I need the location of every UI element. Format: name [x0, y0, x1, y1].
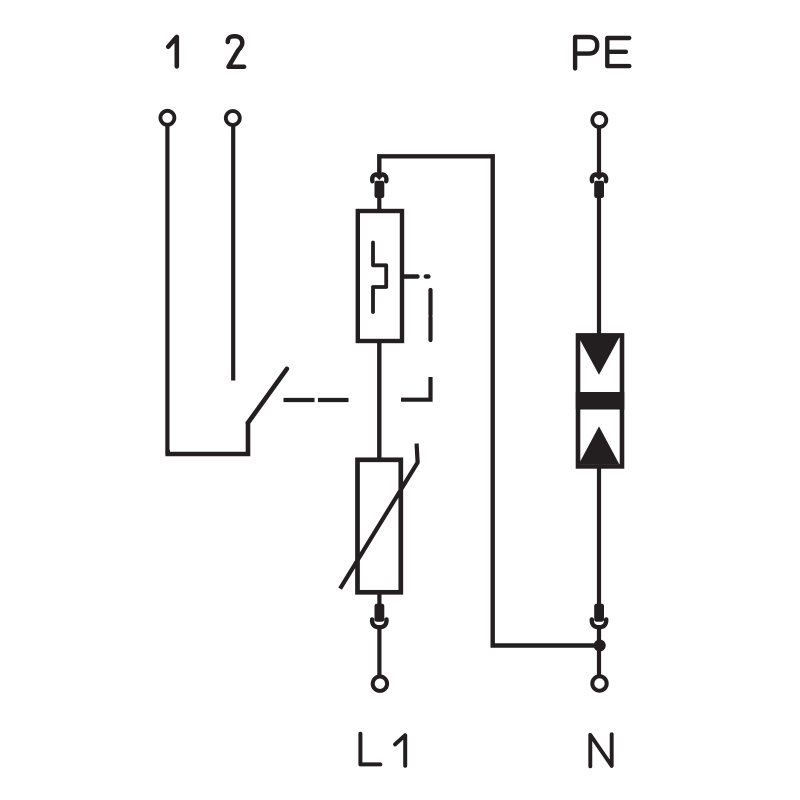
varistor	[358, 460, 401, 593]
wire socket to junction	[597, 628, 601, 676]
plug connector socket (top of SPD module)	[372, 174, 386, 181]
wire varistor to bottom pin	[377, 592, 381, 606]
wire socket to terminal L1	[377, 628, 381, 676]
mechanical linkage dash-dot horizontal from switch	[284, 398, 349, 402]
switch blade	[248, 369, 287, 423]
plug connector pin (top of PE module)	[594, 181, 604, 198]
thermal disconnect device	[358, 211, 402, 341]
terminal 2	[226, 111, 240, 125]
wire top into socket	[377, 170, 381, 176]
terminal PE	[592, 113, 606, 127]
label terminal 1	[168, 37, 177, 67]
gas discharge tube middle bar	[576, 392, 625, 410]
label PE	[575, 37, 597, 68]
wire terminal 2 down	[231, 127, 235, 381]
terminal 1	[160, 111, 174, 125]
mechanical linkage dash-dot vertical	[428, 290, 432, 340]
plug connector pin (bottom of PE module)	[594, 604, 604, 622]
wire top into PE socket	[597, 170, 601, 176]
wire pin to thermal disconnect	[377, 196, 381, 212]
terminal L1	[373, 677, 387, 691]
wire loop top (thermal disconnect to right bus)	[379, 156, 597, 645]
gas discharge tube top triangle	[579, 337, 620, 374]
label N	[590, 734, 611, 766]
mechanical linkage dash-dot from thermal disconnect	[404, 274, 429, 278]
label terminal 2	[228, 36, 244, 67]
junction node	[594, 640, 606, 652]
plug connector pin (bottom of SPD module)	[375, 604, 385, 622]
plug connector socket (top of PE module)	[592, 174, 606, 181]
wire switch bottom horizontal	[165, 422, 248, 455]
plug connector pin (top of SPD module)	[375, 181, 385, 198]
wire gas discharge tube to bottom pin	[597, 467, 601, 606]
gas discharge tube bottom triangle	[579, 426, 620, 464]
gas discharge tube	[578, 335, 622, 466]
label L1	[360, 734, 405, 766]
wire thermal disconnect to varistor	[377, 343, 381, 458]
mechanical linkage corner	[401, 377, 431, 400]
wire PE down	[597, 129, 601, 173]
terminal N	[592, 676, 606, 690]
plug connector socket (bottom of SPD module)	[372, 619, 386, 627]
plug connector socket (bottom of PE module)	[592, 619, 606, 627]
varistor diagonal	[340, 444, 418, 589]
thermal disconnect contact symbol	[373, 243, 386, 313]
wire terminal 1 down to switch pivot	[167, 127, 170, 452]
wire pin to gas discharge tube	[597, 196, 601, 334]
